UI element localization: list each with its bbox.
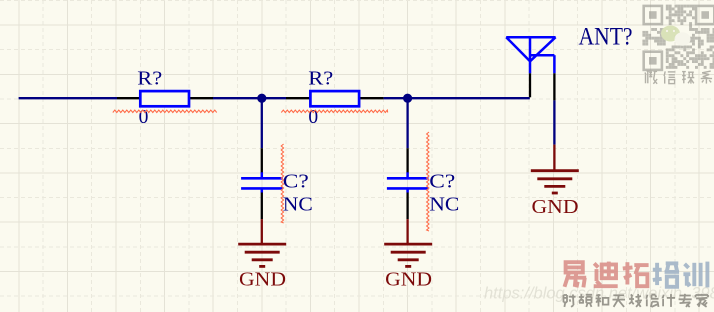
wire W4 R2 to node B [384,97,408,99]
ground GND2 power port [384,219,432,266]
error squiggle beside C2 [427,132,429,231]
capacitor C1 [241,148,283,219]
svg-text:NC: NC [283,195,313,216]
svg-text:R?: R? [137,68,162,89]
wire W5 node B to antenna [408,97,530,99]
svg-text:GND: GND [239,269,286,291]
ground GND1 power port [238,219,286,266]
watermark slogan RF antenna design expert [564,294,709,307]
wire W3 node A to R2 [262,97,286,99]
svg-text:0: 0 [308,107,318,128]
wire W7 node B down [406,98,408,148]
resistor R1 [117,91,213,106]
wire W6 node A down [261,98,263,148]
svg-text:NC: NC [429,195,459,216]
error squiggle beside C1 [281,144,283,223]
ground GND3 power port [531,145,579,193]
watermark caption weixin contact [645,71,712,84]
wire W2 R1 to node A [213,97,262,99]
watermark QR code [642,5,714,70]
svg-text:GND: GND [385,269,432,291]
junction node B [403,94,412,103]
wire W1 left stub [19,97,117,99]
watermark logo yiditop training [565,262,708,288]
resistor R2 [286,91,384,106]
junction node A [257,94,266,103]
antenna E1 [506,37,555,100]
svg-text:ANT?: ANT? [579,24,633,51]
capacitor C2 [387,148,429,219]
svg-text:C?: C? [429,171,455,192]
wire W8 antenna to GND3 [553,100,555,144]
svg-text:GND: GND [532,196,579,218]
svg-text:R?: R? [308,68,333,89]
svg-text:C?: C? [283,171,309,192]
error squiggle under R2 [281,110,387,112]
error squiggle under R1 [113,110,217,112]
